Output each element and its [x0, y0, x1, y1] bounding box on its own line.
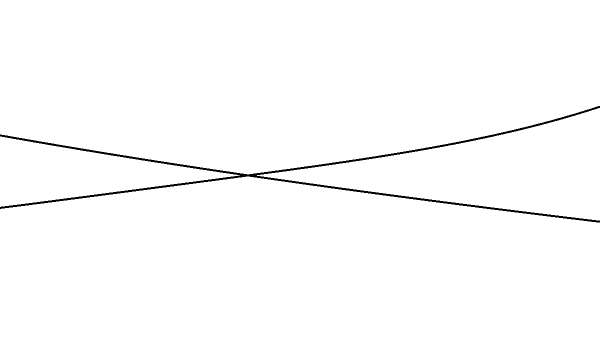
curve 1 (descending line, upper-left to lower-right) [0, 135, 600, 221]
curve 2 (ascending curve, lower-left to upper-right) [0, 107, 600, 208]
